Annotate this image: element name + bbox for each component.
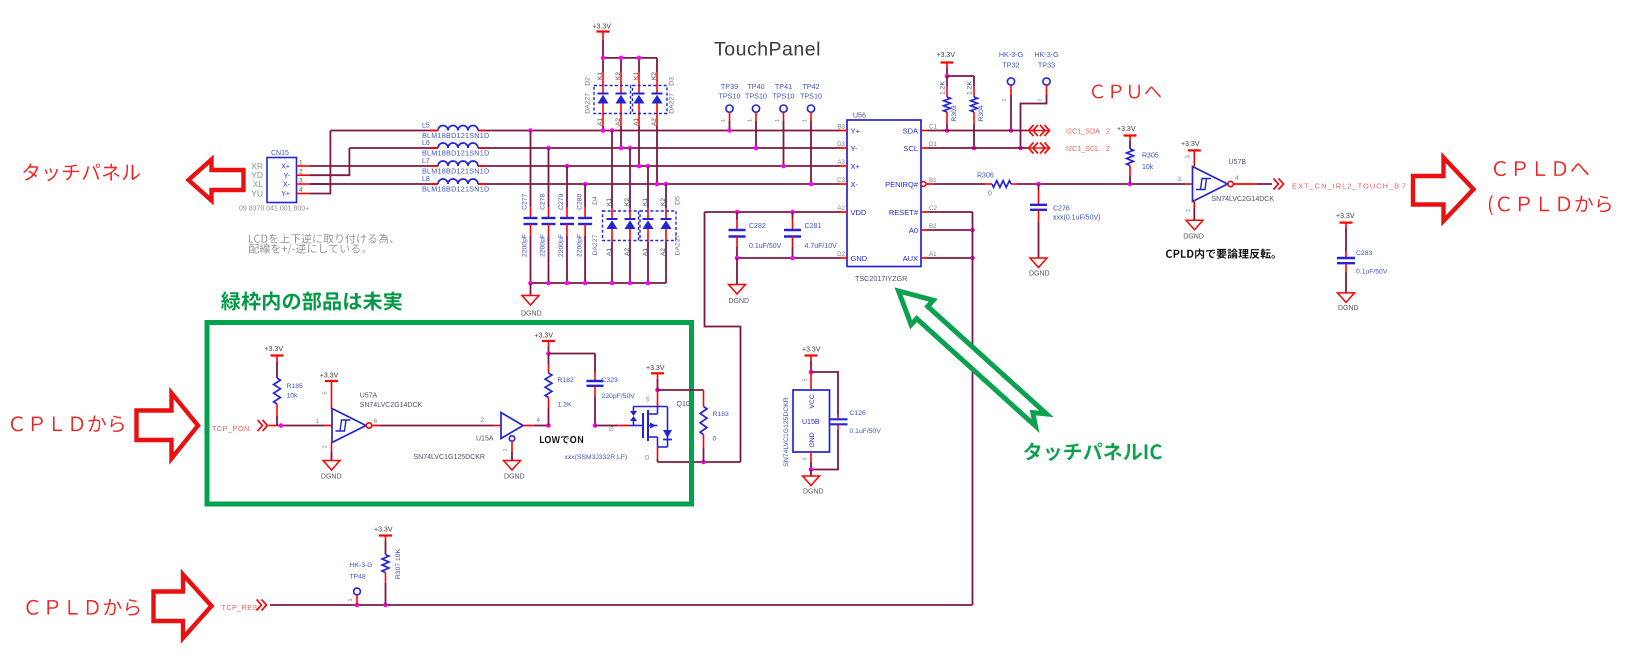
svg-text:+3.3V: +3.3V — [265, 346, 284, 353]
svg-text:B1: B1 — [929, 177, 937, 184]
svg-text:C281: C281 — [805, 223, 822, 230]
svg-text:2: 2 — [1106, 127, 1110, 136]
svg-text:SDA: SDA — [903, 126, 918, 135]
svg-text:1.2K: 1.2K — [967, 81, 974, 95]
svg-text:5: 5 — [323, 391, 329, 394]
svg-text:YU: YU — [251, 189, 263, 199]
svg-text:xxx(SSM3J332R,LF): xxx(SSM3J332R,LF) — [565, 454, 628, 461]
svg-text:TP39: TP39 — [721, 82, 738, 91]
svg-text:1: 1 — [503, 448, 509, 451]
svg-text:HK-3-G: HK-3-G — [1034, 50, 1059, 59]
svg-text:A1: A1 — [606, 248, 613, 256]
svg-text:SN74LVC1G125DCKR: SN74LVC1G125DCKR — [414, 454, 485, 461]
svg-text:+3.3V: +3.3V — [1117, 126, 1136, 133]
svg-text:X+: X+ — [851, 162, 861, 171]
svg-text:C278: C278 — [540, 193, 547, 209]
svg-text:Y+: Y+ — [281, 191, 290, 198]
svg-text:+3.3V: +3.3V — [535, 333, 554, 340]
svg-text:C323: C323 — [602, 377, 618, 384]
svg-text:+3.3V: +3.3V — [937, 52, 956, 59]
svg-text:DA227: DA227 — [592, 234, 599, 255]
svg-text:D: D — [645, 456, 650, 462]
svg-text:DA227: DA227 — [675, 234, 682, 255]
svg-text:SCL: SCL — [903, 144, 918, 153]
svg-text:VCC: VCC — [809, 394, 816, 408]
svg-text:Q10: Q10 — [677, 401, 690, 408]
svg-text:+3.3V: +3.3V — [593, 24, 612, 31]
svg-text:DGND: DGND — [504, 474, 525, 481]
svg-text:1: 1 — [299, 160, 303, 167]
svg-text:7: 7 — [1402, 181, 1406, 190]
svg-text:1: 1 — [721, 119, 727, 122]
svg-text:R306: R306 — [977, 173, 994, 180]
svg-text:RESET#: RESET# — [889, 208, 919, 217]
svg-text:1: 1 — [1038, 98, 1044, 101]
svg-text:1: 1 — [748, 119, 754, 122]
svg-text:D5: D5 — [675, 196, 682, 205]
svg-text:DGND: DGND — [729, 298, 750, 305]
svg-text:HK-3-G: HK-3-G — [999, 50, 1024, 59]
svg-text:S: S — [645, 398, 649, 404]
svg-text:B2: B2 — [929, 223, 937, 230]
svg-text:L7: L7 — [422, 158, 430, 165]
svg-text:2: 2 — [1186, 209, 1192, 212]
svg-text:R307 10K: R307 10K — [395, 548, 402, 579]
svg-text:5: 5 — [1186, 155, 1192, 158]
svg-text:A1: A1 — [929, 251, 937, 258]
svg-text:DGND: DGND — [521, 311, 542, 318]
svg-text:R304: R304 — [978, 105, 985, 121]
svg-text:+3.3V: +3.3V — [374, 527, 393, 534]
svg-text:A2: A2 — [660, 248, 667, 256]
svg-text:A1: A1 — [642, 248, 649, 256]
svg-text:K1: K1 — [633, 72, 640, 80]
svg-text:DGND: DGND — [321, 474, 342, 481]
svg-text:U57A: U57A — [360, 393, 378, 400]
svg-text:1: 1 — [803, 119, 809, 122]
svg-text:Y-: Y- — [284, 173, 291, 180]
svg-text:6: 6 — [374, 418, 378, 425]
svg-text:TPS10: TPS10 — [719, 92, 741, 101]
svg-text:TP33: TP33 — [1038, 61, 1055, 70]
svg-text:0.1uF/50V: 0.1uF/50V — [749, 243, 782, 250]
svg-text:A2: A2 — [651, 118, 658, 126]
svg-text:SN74LVC1G125DCKR: SN74LVC1G125DCKR — [783, 397, 790, 466]
svg-text:I2C1_SDA: I2C1_SDA — [1066, 127, 1100, 136]
svg-text:BLM18BD121SN1D: BLM18BD121SN1D — [422, 185, 489, 194]
svg-text:EXT_CN_IRL2_TOUCH_B: EXT_CN_IRL2_TOUCH_B — [1292, 181, 1400, 190]
svg-text:2: 2 — [323, 445, 329, 448]
svg-text:0: 0 — [988, 191, 992, 198]
svg-text:A0: A0 — [909, 226, 918, 235]
svg-text:K2: K2 — [615, 72, 622, 80]
svg-text:2200pF: 2200pF — [558, 234, 565, 257]
svg-text:2: 2 — [481, 417, 485, 424]
svg-text:K2: K2 — [624, 198, 631, 206]
svg-text:U56: U56 — [853, 113, 866, 120]
svg-text:5: 5 — [803, 378, 809, 381]
svg-text:U57B: U57B — [1229, 159, 1247, 166]
svg-text:BLM18BD121SN1D: BLM18BD121SN1D — [422, 167, 489, 176]
svg-text:R182: R182 — [558, 377, 574, 384]
svg-text:1.2K: 1.2K — [940, 81, 947, 95]
svg-text:4: 4 — [537, 417, 541, 424]
svg-text:TP42: TP42 — [802, 82, 819, 91]
svg-text:0.1uF/50V: 0.1uF/50V — [850, 428, 882, 435]
svg-text:2200pF: 2200pF — [540, 234, 547, 257]
svg-text:G: G — [609, 427, 614, 433]
svg-text:BLM18BD121SN1D: BLM18BD121SN1D — [422, 149, 489, 158]
svg-text:C282: C282 — [749, 223, 766, 230]
svg-text:09 8370 041 001 800+: 09 8370 041 001 800+ — [239, 206, 309, 213]
svg-text:CN15: CN15 — [271, 150, 289, 157]
svg-text:+3.3V: +3.3V — [1336, 213, 1355, 220]
svg-text:D2: D2 — [837, 251, 845, 258]
svg-text:TPS10: TPS10 — [800, 92, 822, 101]
svg-text:4: 4 — [299, 187, 303, 194]
svg-text:2200pF: 2200pF — [522, 234, 529, 257]
svg-text:+3.3V: +3.3V — [802, 347, 821, 354]
svg-text:TouchPanel: TouchPanel — [714, 39, 821, 61]
svg-text:XL: XL — [253, 179, 264, 189]
svg-text:X-: X- — [851, 180, 859, 189]
svg-text:K1: K1 — [597, 72, 604, 80]
svg-text:C277: C277 — [522, 193, 529, 209]
svg-text:C279: C279 — [558, 193, 565, 209]
svg-text:2: 2 — [1106, 144, 1110, 153]
svg-text:R185: R185 — [287, 383, 303, 390]
svg-text:A2: A2 — [837, 205, 845, 212]
svg-text:DGND: DGND — [803, 489, 824, 496]
svg-text:K2: K2 — [660, 198, 667, 206]
svg-text:10k: 10k — [287, 393, 299, 400]
svg-text:L8: L8 — [422, 176, 430, 183]
svg-text:TPS10: TPS10 — [745, 92, 767, 101]
svg-text:1: 1 — [316, 418, 320, 425]
svg-text:0.1uF/50V: 0.1uF/50V — [1356, 269, 1388, 276]
svg-text:C2: C2 — [929, 205, 937, 212]
svg-text:K1: K1 — [642, 198, 649, 206]
svg-text:AUX: AUX — [903, 254, 918, 263]
svg-text:R303: R303 — [951, 105, 958, 121]
svg-text:A3: A3 — [837, 159, 845, 166]
svg-text:D4: D4 — [592, 196, 599, 205]
svg-text:GND: GND — [809, 432, 816, 447]
svg-text:xxx(0.1uF/50V): xxx(0.1uF/50V) — [1053, 215, 1100, 222]
svg-text:DGND: DGND — [1338, 305, 1359, 312]
svg-text:K1: K1 — [606, 198, 613, 206]
svg-text:220pF/50V: 220pF/50V — [602, 393, 636, 400]
svg-text:1: 1 — [1002, 98, 1008, 101]
svg-text:C276: C276 — [1053, 206, 1070, 213]
svg-text:10k: 10k — [1142, 164, 1154, 171]
svg-text:TSC2017IYZGR: TSC2017IYZGR — [855, 274, 907, 283]
svg-text:R305: R305 — [1142, 153, 1159, 160]
svg-text:3: 3 — [1178, 176, 1182, 183]
svg-text:+3.3V: +3.3V — [646, 365, 665, 372]
svg-text:1: 1 — [775, 119, 781, 122]
svg-text:D1: D1 — [929, 141, 937, 148]
svg-text:PENIRQ#: PENIRQ# — [885, 180, 919, 189]
svg-text:A2: A2 — [624, 248, 631, 256]
svg-text:I2C1_SCL: I2C1_SCL — [1066, 144, 1099, 153]
svg-text:DA227: DA227 — [669, 93, 676, 114]
svg-text:VDD: VDD — [851, 208, 867, 217]
svg-text:K2: K2 — [651, 72, 658, 80]
svg-text:DA227: DA227 — [584, 93, 591, 114]
svg-text:D2: D2 — [584, 77, 591, 86]
svg-text:A1: A1 — [597, 118, 604, 126]
svg-text:A1: A1 — [633, 118, 640, 126]
svg-text:U15A: U15A — [476, 436, 494, 443]
svg-text:TP32: TP32 — [1002, 61, 1019, 70]
svg-text:L5: L5 — [422, 123, 430, 130]
svg-text:Y+: Y+ — [851, 126, 861, 135]
svg-text:R183: R183 — [713, 411, 729, 418]
svg-text:0: 0 — [713, 436, 717, 443]
svg-text:TCP_PON: TCP_PON — [212, 424, 250, 433]
svg-text:C283: C283 — [1356, 250, 1372, 257]
svg-text:TCP_RES: TCP_RES — [222, 603, 258, 612]
svg-text:3: 3 — [803, 457, 809, 460]
svg-text:SN74LVC2G14DCK: SN74LVC2G14DCK — [360, 402, 423, 409]
svg-text:Y-: Y- — [851, 144, 858, 153]
svg-text:DGND: DGND — [1029, 271, 1050, 278]
svg-text:4: 4 — [1235, 175, 1239, 182]
svg-text:DGND: DGND — [1183, 234, 1204, 241]
svg-text:A2: A2 — [615, 118, 622, 126]
svg-text:4.7uF/10V: 4.7uF/10V — [805, 243, 838, 250]
svg-text:X+: X+ — [281, 164, 290, 171]
svg-text:C3: C3 — [837, 177, 845, 184]
svg-text:HK-3-G: HK-3-G — [350, 562, 373, 569]
svg-text:C126: C126 — [850, 410, 866, 417]
svg-text:2: 2 — [299, 169, 303, 176]
svg-text:1: 1 — [348, 598, 354, 601]
svg-text:X-: X- — [283, 182, 291, 189]
svg-text:C1: C1 — [929, 124, 937, 131]
svg-text:3: 3 — [299, 178, 303, 185]
svg-text:+3.3V: +3.3V — [1181, 141, 1200, 148]
svg-text:C280: C280 — [576, 193, 583, 209]
svg-text:BLM18BD121SN1D: BLM18BD121SN1D — [422, 131, 489, 140]
svg-text:TP40: TP40 — [747, 82, 764, 91]
svg-text:D3: D3 — [837, 141, 845, 148]
svg-text:SN74LVC2G14DCK: SN74LVC2G14DCK — [1212, 196, 1275, 203]
svg-text:D3: D3 — [669, 77, 676, 86]
svg-text:B3: B3 — [837, 124, 845, 131]
svg-text:TPS10: TPS10 — [773, 92, 795, 101]
svg-text:TP41: TP41 — [775, 82, 792, 91]
svg-text:1.2K: 1.2K — [558, 402, 572, 409]
svg-text:L6: L6 — [422, 140, 430, 147]
svg-text:TP48: TP48 — [350, 574, 366, 581]
svg-text:+3.3V: +3.3V — [320, 373, 339, 380]
svg-text:U15B: U15B — [802, 419, 820, 426]
svg-text:2200pF: 2200pF — [576, 234, 583, 257]
svg-text:GND: GND — [851, 254, 868, 263]
